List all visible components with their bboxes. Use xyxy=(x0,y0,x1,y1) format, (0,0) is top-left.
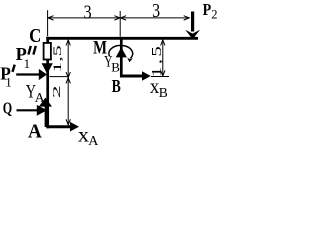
svg-text:1,5: 1,5 xyxy=(51,45,64,73)
svg-text:A: A xyxy=(88,134,99,149)
svg-text:3: 3 xyxy=(84,1,92,23)
svg-text:2: 2 xyxy=(211,8,217,22)
svg-text:1: 1 xyxy=(5,75,12,90)
svg-text:1: 1 xyxy=(24,56,31,71)
svg-text:A: A xyxy=(35,91,46,106)
svg-text:B: B xyxy=(159,85,168,100)
svg-text:Q: Q xyxy=(3,98,13,117)
svg-text:P: P xyxy=(203,0,212,19)
svg-text:1,5: 1,5 xyxy=(149,44,164,77)
svg-text:2: 2 xyxy=(51,85,63,98)
svg-text:B: B xyxy=(111,59,120,74)
svg-text:3: 3 xyxy=(152,0,160,21)
svg-text:B: B xyxy=(112,76,121,96)
svg-text:A: A xyxy=(28,121,42,143)
svg-text:C: C xyxy=(29,25,41,47)
